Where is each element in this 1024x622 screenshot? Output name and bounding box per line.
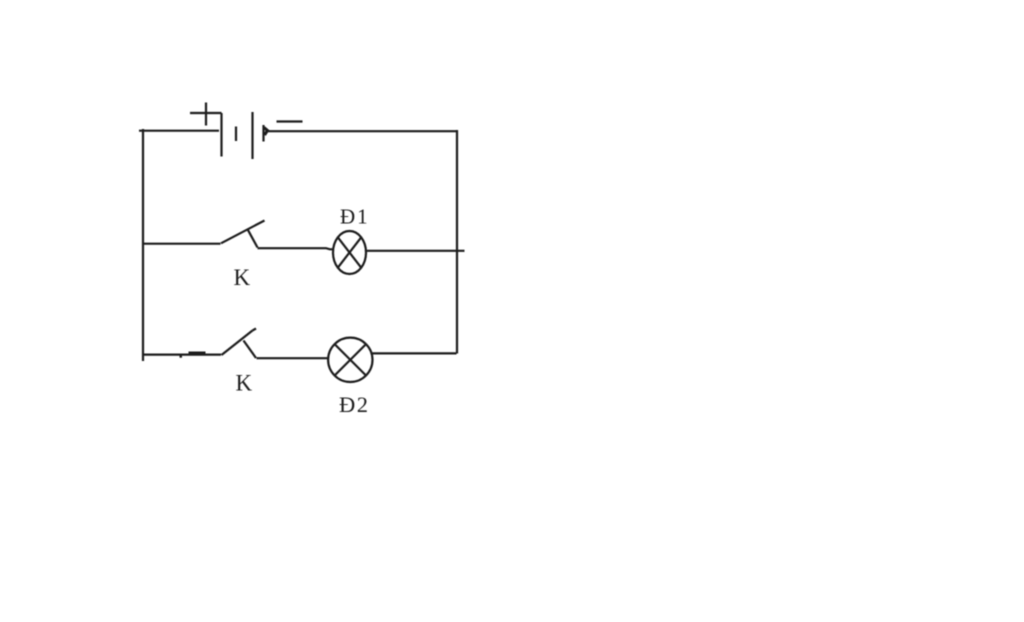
wire left vertical xyxy=(142,129,144,361)
lamp D1 cross stroke 2 xyxy=(338,237,361,267)
battery short plate 2 (negative) xyxy=(262,125,264,142)
wire middle (switch K1 to lamp D1) xyxy=(258,248,334,249)
switch K2 lever (open) xyxy=(222,331,253,356)
wire bottom-left (to switch K2) xyxy=(143,354,221,356)
battery short plate 1 xyxy=(235,127,237,142)
lamp D1 cross stroke 1 xyxy=(338,237,361,267)
wire bottom-right (lamp D2 to right corner) xyxy=(373,352,457,354)
wire middle-right (lamp D1 to right wire, overshoot) xyxy=(366,250,465,252)
lamp D1 bulb circle xyxy=(333,231,366,274)
switch K2 lever tip tick xyxy=(253,329,257,331)
lamp D2 cross stroke 2 xyxy=(335,344,366,375)
lamp D2 cross stroke 1 xyxy=(335,344,366,375)
switch K1 fixed contact xyxy=(247,229,257,248)
svg-text:Đ1: Đ1 xyxy=(340,205,370,229)
wire right vertical xyxy=(456,130,458,354)
battery long plate 1 (positive) xyxy=(220,113,222,157)
battery plus sign horizontal xyxy=(190,112,222,114)
switch K1 lever (open) xyxy=(221,221,265,244)
wire middle-left (to switch K1) xyxy=(143,243,221,245)
battery long plate 2 xyxy=(251,112,253,159)
wire top-right (battery - to right corner) xyxy=(266,130,458,132)
bold retrace dash on bottom-left wire xyxy=(189,352,206,355)
battery plus sign vertical xyxy=(205,103,207,126)
svg-text:Đ2: Đ2 xyxy=(339,392,370,417)
battery minus sign xyxy=(277,120,303,122)
wire top-left (battery + side) xyxy=(139,130,219,132)
svg-text:K: K xyxy=(234,265,251,290)
lamp D2 bulb circle xyxy=(328,338,372,382)
small tick below bottom-left wire xyxy=(180,355,183,357)
switch K2 fixed contact xyxy=(244,341,257,359)
svg-text:K: K xyxy=(236,371,253,396)
battery terminal junction blob xyxy=(264,128,268,136)
wire bottom (switch K2 to lamp D2) xyxy=(257,357,329,359)
